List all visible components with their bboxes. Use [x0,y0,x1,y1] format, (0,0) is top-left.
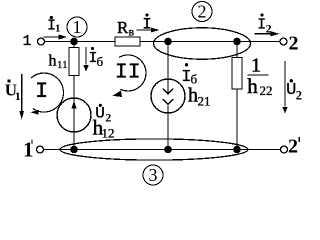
junction node bottom left [70,146,78,154]
wire left branch upper [73,42,75,48]
current arrow Ib (base current) [83,47,89,72]
svg-text:3: 3 [149,165,158,185]
svg-text:1: 1 [15,89,21,103]
svg-text:2: 2 [289,32,299,54]
current arrow I2 [255,31,280,36]
wire middle branch lower [167,106,169,150]
svg-text:2: 2 [105,111,111,125]
node label circle 2 [192,2,212,22]
wire left branch through source E [73,76,75,150]
current arrow I through RB [137,28,160,33]
junction node top middle [164,38,172,46]
resistor RB [115,37,140,46]
chevron arrow 1 of current source [163,89,173,95]
svg-text:12: 12 [102,126,115,141]
svg-text:22: 22 [260,83,273,98]
svg-text:2: 2 [288,136,298,158]
resistor 1/h22 [232,58,242,90]
wire top rail left: terminal 1 to node A [45,41,116,43]
svg-text:б: б [97,54,104,69]
svg-text:21: 21 [198,94,211,109]
wire top rail right: RB to terminal 2 [140,41,280,43]
label h11 [49,53,68,72]
label U1 with dot [5,79,21,103]
junction node A top left [70,38,78,46]
svg-text:R: R [117,18,129,37]
mesh loop II arc [113,55,147,97]
svg-text:I: I [35,79,48,104]
label h12 [93,116,115,141]
voltage arrow U1 [19,74,24,120]
svg-text:U: U [286,81,296,100]
current source h21*Ib [151,79,185,113]
label h21 [188,85,211,109]
svg-text:2: 2 [266,21,272,35]
label Ib with dot (left) [89,47,104,69]
node label circle 3 [143,165,163,185]
wire right branch lower [236,89,238,150]
label RB [117,18,135,39]
svg-text:h: h [247,74,258,98]
terminal 2-prime circle [281,146,288,153]
svg-text:2: 2 [198,2,207,22]
wire right branch upper [236,42,238,58]
chevron arrow 2 of current source [163,99,173,105]
junction node bottom right [233,146,241,154]
current arrow I1 [44,34,68,39]
label I2 with dot [257,13,272,35]
wire middle branch upper [167,42,169,94]
svg-text:2: 2 [296,89,302,103]
junction node top right [233,38,241,46]
resistor h11 [69,48,79,76]
svg-text:1: 1 [73,17,82,37]
svg-text:h: h [49,53,57,70]
svg-text:I: I [142,16,152,34]
junction node bottom middle [164,146,172,154]
mesh loop I arc [30,73,63,115]
node label circle 1 [67,17,87,37]
EMF arrow inside source h12 (points up) [71,101,76,109]
label Ib with dot (at h21 source) [181,63,197,87]
label I1 with dot [47,16,61,35]
voltage source h12*U2 [57,98,91,132]
svg-text:II: II [115,61,141,85]
label I with dot (middle) [142,13,152,33]
terminal 2 circle [280,38,287,45]
label U2 with dot (right) [286,79,302,102]
wire bottom rail [44,149,281,151]
svg-text:h: h [188,85,198,107]
label 1/h22 fraction [247,55,272,98]
voltage arrow U2 (right) [282,61,287,114]
terminal 1 circle [38,38,45,45]
terminal 1-prime circle [37,146,44,153]
generalized node ellipse top right (node 2 cutset) [154,28,251,59]
label U2 with dot (at h12 source) [95,104,111,125]
terminal label 2-prime [288,136,299,158]
svg-text:1: 1 [55,23,61,35]
terminal label 1-prime [23,138,34,162]
svg-text:1: 1 [23,33,32,50]
svg-text:11: 11 [57,59,68,71]
generalized node ellipse bottom (node 3 cutset) [60,139,248,160]
svg-text:в: в [129,25,135,39]
